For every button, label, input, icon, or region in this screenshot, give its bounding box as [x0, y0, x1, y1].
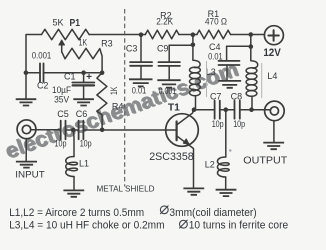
wire C2 to R3 R4 node — [44, 72, 103, 74]
inductor L2 aircore coil — [217, 157, 229, 177]
base wire to T1 — [83, 129, 176, 131]
svg-text:C3: C3 — [126, 44, 138, 54]
wire junction B down — [192, 35, 194, 45]
ground G10 below output — [263, 143, 284, 150]
svg-text:35V: 35V — [54, 94, 69, 104]
svg-text:C1: C1 — [64, 72, 76, 82]
svg-text:C6: C6 — [76, 109, 88, 119]
junction C4 L4 node — [249, 44, 254, 49]
svg-text:L2: L2 — [205, 160, 215, 170]
input ground stem — [25, 139, 27, 162]
transistor emitter — [177, 136, 194, 188]
svg-text:10p: 10p — [233, 119, 245, 129]
wire input to C5 — [31, 129, 61, 131]
junction 12V rail node — [249, 32, 254, 37]
ground G5 below C4 — [218, 81, 241, 88]
svg-text:470 Ω: 470 Ω — [205, 17, 227, 27]
wire P1 to R2 — [89, 34, 145, 36]
svg-text:L3: L3 — [206, 67, 216, 77]
wire y46 C4 corner to L4 junction — [227, 45, 251, 47]
ground G6 below input — [16, 162, 37, 168]
svg-text:10p: 10p — [212, 119, 224, 129]
junction R3 R4 node — [100, 70, 105, 75]
svg-text:0.01: 0.01 — [208, 52, 223, 62]
svg-text:L1: L1 — [79, 158, 89, 168]
svg-text:C2: C2 — [37, 80, 49, 90]
capacitor C3 0.01 stem — [140, 35, 142, 63]
svg-text:OUTPUT: OUTPUT — [243, 155, 288, 166]
transistor collector — [177, 110, 193, 125]
svg-text:1K: 1K — [79, 37, 88, 47]
resistor R1 470ohm zigzag — [197, 30, 231, 39]
wire top-left corner and left vertical — [26, 35, 42, 73]
resistor R3 1K zigzag — [62, 48, 102, 72]
wire C2 row — [26, 72, 40, 74]
resistor R4 1K vertical zigzag — [97, 73, 107, 130]
svg-text:10p: 10p — [55, 139, 67, 149]
metal shield dashed line — [124, 9, 126, 187]
output row wire — [194, 109, 215, 111]
svg-text:3mm(coil diameter): 3mm(coil diameter) — [169, 207, 256, 219]
capacitor C4 0.01 — [226, 46, 228, 61]
wire R1 to 12V supply — [231, 34, 265, 36]
diameter symbol line 1 — [160, 206, 187, 229]
ground G1 below C2 rail — [16, 99, 37, 105]
capacitor C1 10uF 35V electrolytic — [83, 73, 85, 83]
svg-text:10 turns in ferrite core: 10 turns in ferrite core — [189, 220, 289, 232]
output connector — [265, 101, 285, 121]
ground G9 below L2 — [216, 190, 237, 196]
12V plus sign — [268, 30, 278, 40]
12V supply circle — [264, 26, 283, 45]
inductor L2 stem — [225, 110, 227, 157]
watermark electroschematics.com — [2, 57, 243, 164]
ground G3 below C3 — [129, 79, 153, 86]
junction C7 C8 L2 node — [224, 107, 229, 112]
potentiometer P1 5K zigzag — [42, 29, 90, 39]
transistor T1 circle — [166, 114, 199, 147]
svg-text:2SC3358: 2SC3358 — [149, 151, 194, 163]
junction R4 base node — [100, 128, 105, 133]
ground G8 below T1 emitter — [183, 188, 204, 194]
emitter arrowhead — [183, 139, 189, 145]
junction collector L3 node — [192, 107, 197, 112]
svg-text:2.2K: 2.2K — [156, 17, 173, 27]
junction L4 output node — [249, 107, 254, 112]
diameter symbol line 2 — [180, 220, 188, 228]
svg-text:R3: R3 — [101, 38, 113, 48]
inductor L1 aircore coil — [66, 157, 78, 177]
svg-text:METAL SHIELD: METAL SHIELD — [97, 185, 155, 194]
svg-text:0.001: 0.001 — [32, 51, 52, 61]
junction C1 top node — [81, 70, 86, 75]
junction C5 C6 L1 node — [71, 128, 76, 133]
ground G7 below L1 — [63, 190, 84, 196]
svg-text:0.01: 0.01 — [132, 85, 147, 95]
capacitor C8 10p — [234, 101, 236, 119]
asterisk mark near L2 — [229, 149, 231, 151]
svg-text:L3,L4 = 10 uH HF choke or 0.2m: L3,L4 = 10 uH HF choke or 0.2mm — [9, 220, 164, 232]
wire C5 to C6 — [66, 129, 79, 131]
capacitor C7 10p — [214, 101, 216, 119]
junction C9 L3 node — [191, 43, 196, 48]
svg-text:+: + — [86, 72, 92, 83]
ground G4 below C9 — [157, 80, 180, 87]
junction R2 R1 rail node — [191, 32, 196, 37]
svg-text:INPUT: INPUT — [15, 170, 45, 180]
svg-text:C7: C7 — [210, 92, 222, 102]
capacitor C5 10p — [60, 121, 62, 140]
capacitor C9 0.001 stem — [168, 45, 170, 62]
junction C2 left node — [24, 70, 29, 75]
resistor R2 2.2K zigzag — [145, 30, 179, 39]
svg-text:C8: C8 — [231, 92, 243, 102]
wire R2 to R1 — [179, 34, 197, 36]
svg-text:L1,L2 = Aircore 2 turns 0.5mm: L1,L2 = Aircore 2 turns 0.5mm — [9, 207, 144, 219]
ground G2 below C1 — [73, 99, 94, 105]
svg-text:T1: T1 — [168, 103, 180, 114]
svg-text:R4: R4 — [112, 101, 124, 111]
output ground stem — [273, 121, 275, 143]
wire y45 C9 to junction B — [169, 44, 193, 46]
P1 wiper arrow — [61, 42, 63, 53]
junction C3 top rail node — [139, 32, 144, 37]
wire left vertical to ground — [25, 73, 27, 99]
svg-text:1K: 1K — [109, 87, 119, 96]
svg-text:12V: 12V — [263, 47, 281, 59]
svg-text:10p: 10p — [80, 139, 92, 149]
transistor base bar — [176, 122, 178, 141]
choke core line L3 — [206, 61, 208, 97]
inductor L1 stem — [72, 130, 75, 157]
input connector — [17, 120, 36, 139]
choke core line L4 — [261, 63, 263, 98]
svg-text:P1: P1 — [70, 17, 81, 29]
ground symbols — [16, 79, 284, 197]
svg-text:5K: 5K — [53, 18, 64, 28]
inductor L3 choke — [193, 45, 200, 68]
svg-text:L4: L4 — [267, 71, 277, 81]
svg-text:C5: C5 — [57, 109, 69, 119]
svg-text:C9: C9 — [157, 44, 169, 54]
capacitor C6 10p — [78, 121, 80, 140]
inductor L4 choke — [250, 35, 252, 47]
capacitor C2 0.001 — [39, 63, 41, 82]
svg-text:0.001: 0.001 — [159, 86, 177, 96]
